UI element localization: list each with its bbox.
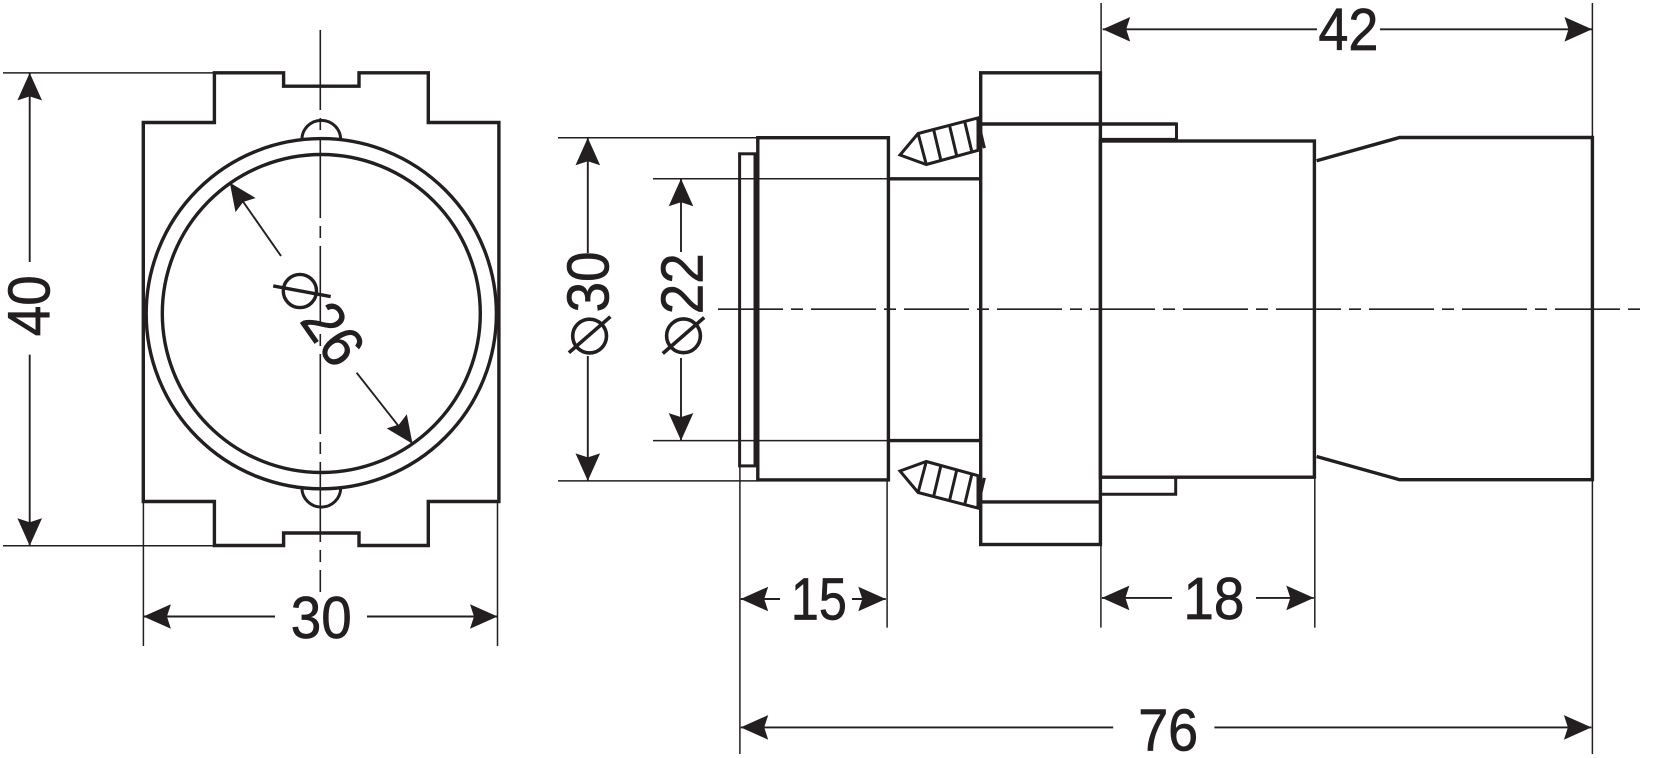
svg-text:18: 18 [1183, 565, 1244, 632]
dimension 42 extension lines [1100, 3, 1102, 73]
dimension 30 extension lines [142, 502, 144, 646]
rear cylinder body [1100, 141, 1314, 477]
diameter 22 dimension line [680, 179, 682, 252]
dimension 15 extension lines [739, 466, 741, 754]
dimension 42 arrowheads [1103, 17, 1131, 42]
dimension 40 extension lines [3, 72, 215, 74]
front view body outline [143, 73, 499, 546]
bottom tab [1100, 477, 1175, 494]
dimension 18 arrowheads [1102, 586, 1130, 611]
button face flange (side) [740, 154, 755, 466]
top tab [1100, 124, 1176, 139]
svg-text:30: 30 [291, 584, 352, 651]
diameter 22 arrowheads [669, 179, 694, 207]
svg-text:40: 40 [0, 275, 63, 336]
dimension 18 line [1102, 597, 1172, 599]
diameter 30 arrowheads [576, 138, 601, 166]
vertical centerline (front view) [319, 30, 321, 592]
neck bottom edge [888, 439, 980, 442]
svg-text:26: 26 [288, 290, 378, 378]
svg-text:15: 15 [791, 565, 847, 632]
bottom index bump [302, 488, 341, 507]
svg-text:42: 42 [1318, 0, 1378, 63]
bottom fixing screw [900, 462, 984, 509]
block bottom cap line [981, 500, 1101, 503]
dimension 76 line [741, 726, 1113, 728]
dimension 76 arrowheads [741, 715, 769, 740]
neck top edge [888, 177, 980, 180]
bezel rectangle (side) [758, 138, 889, 480]
dimension 40 arrowheads [17, 73, 42, 101]
svg-text:22: 22 [649, 253, 716, 314]
diameter 30 dimension line [587, 138, 589, 253]
top index bump [302, 120, 341, 139]
rear end cap [1317, 138, 1593, 480]
dimension 76 right extension line [1591, 481, 1593, 754]
diameter 22 extension lines [653, 178, 888, 180]
diameter 26 arrowheads [220, 176, 256, 213]
button inner circle (front) [162, 155, 480, 473]
dimension 40 line [29, 73, 31, 262]
dimension 30 arrowheads [143, 604, 171, 629]
dimension 42 line [1103, 28, 1317, 30]
svg-text:76: 76 [1138, 697, 1198, 758]
dimension 18 extension lines [1100, 546, 1102, 628]
central mounting block [981, 73, 1101, 545]
dimension 15 arrowheads [741, 587, 769, 612]
side view horizontal centerline [718, 308, 1648, 310]
diameter 30 extension lines [558, 137, 758, 139]
dimension 15 line [741, 598, 780, 600]
dimension 30 line [143, 616, 275, 618]
top fixing screw [900, 118, 984, 165]
svg-text:30: 30 [555, 251, 622, 312]
diameter 26 leader line [230, 183, 281, 256]
block top cap line and tab top [981, 122, 1177, 125]
bezel outer circle (front) [146, 139, 496, 489]
